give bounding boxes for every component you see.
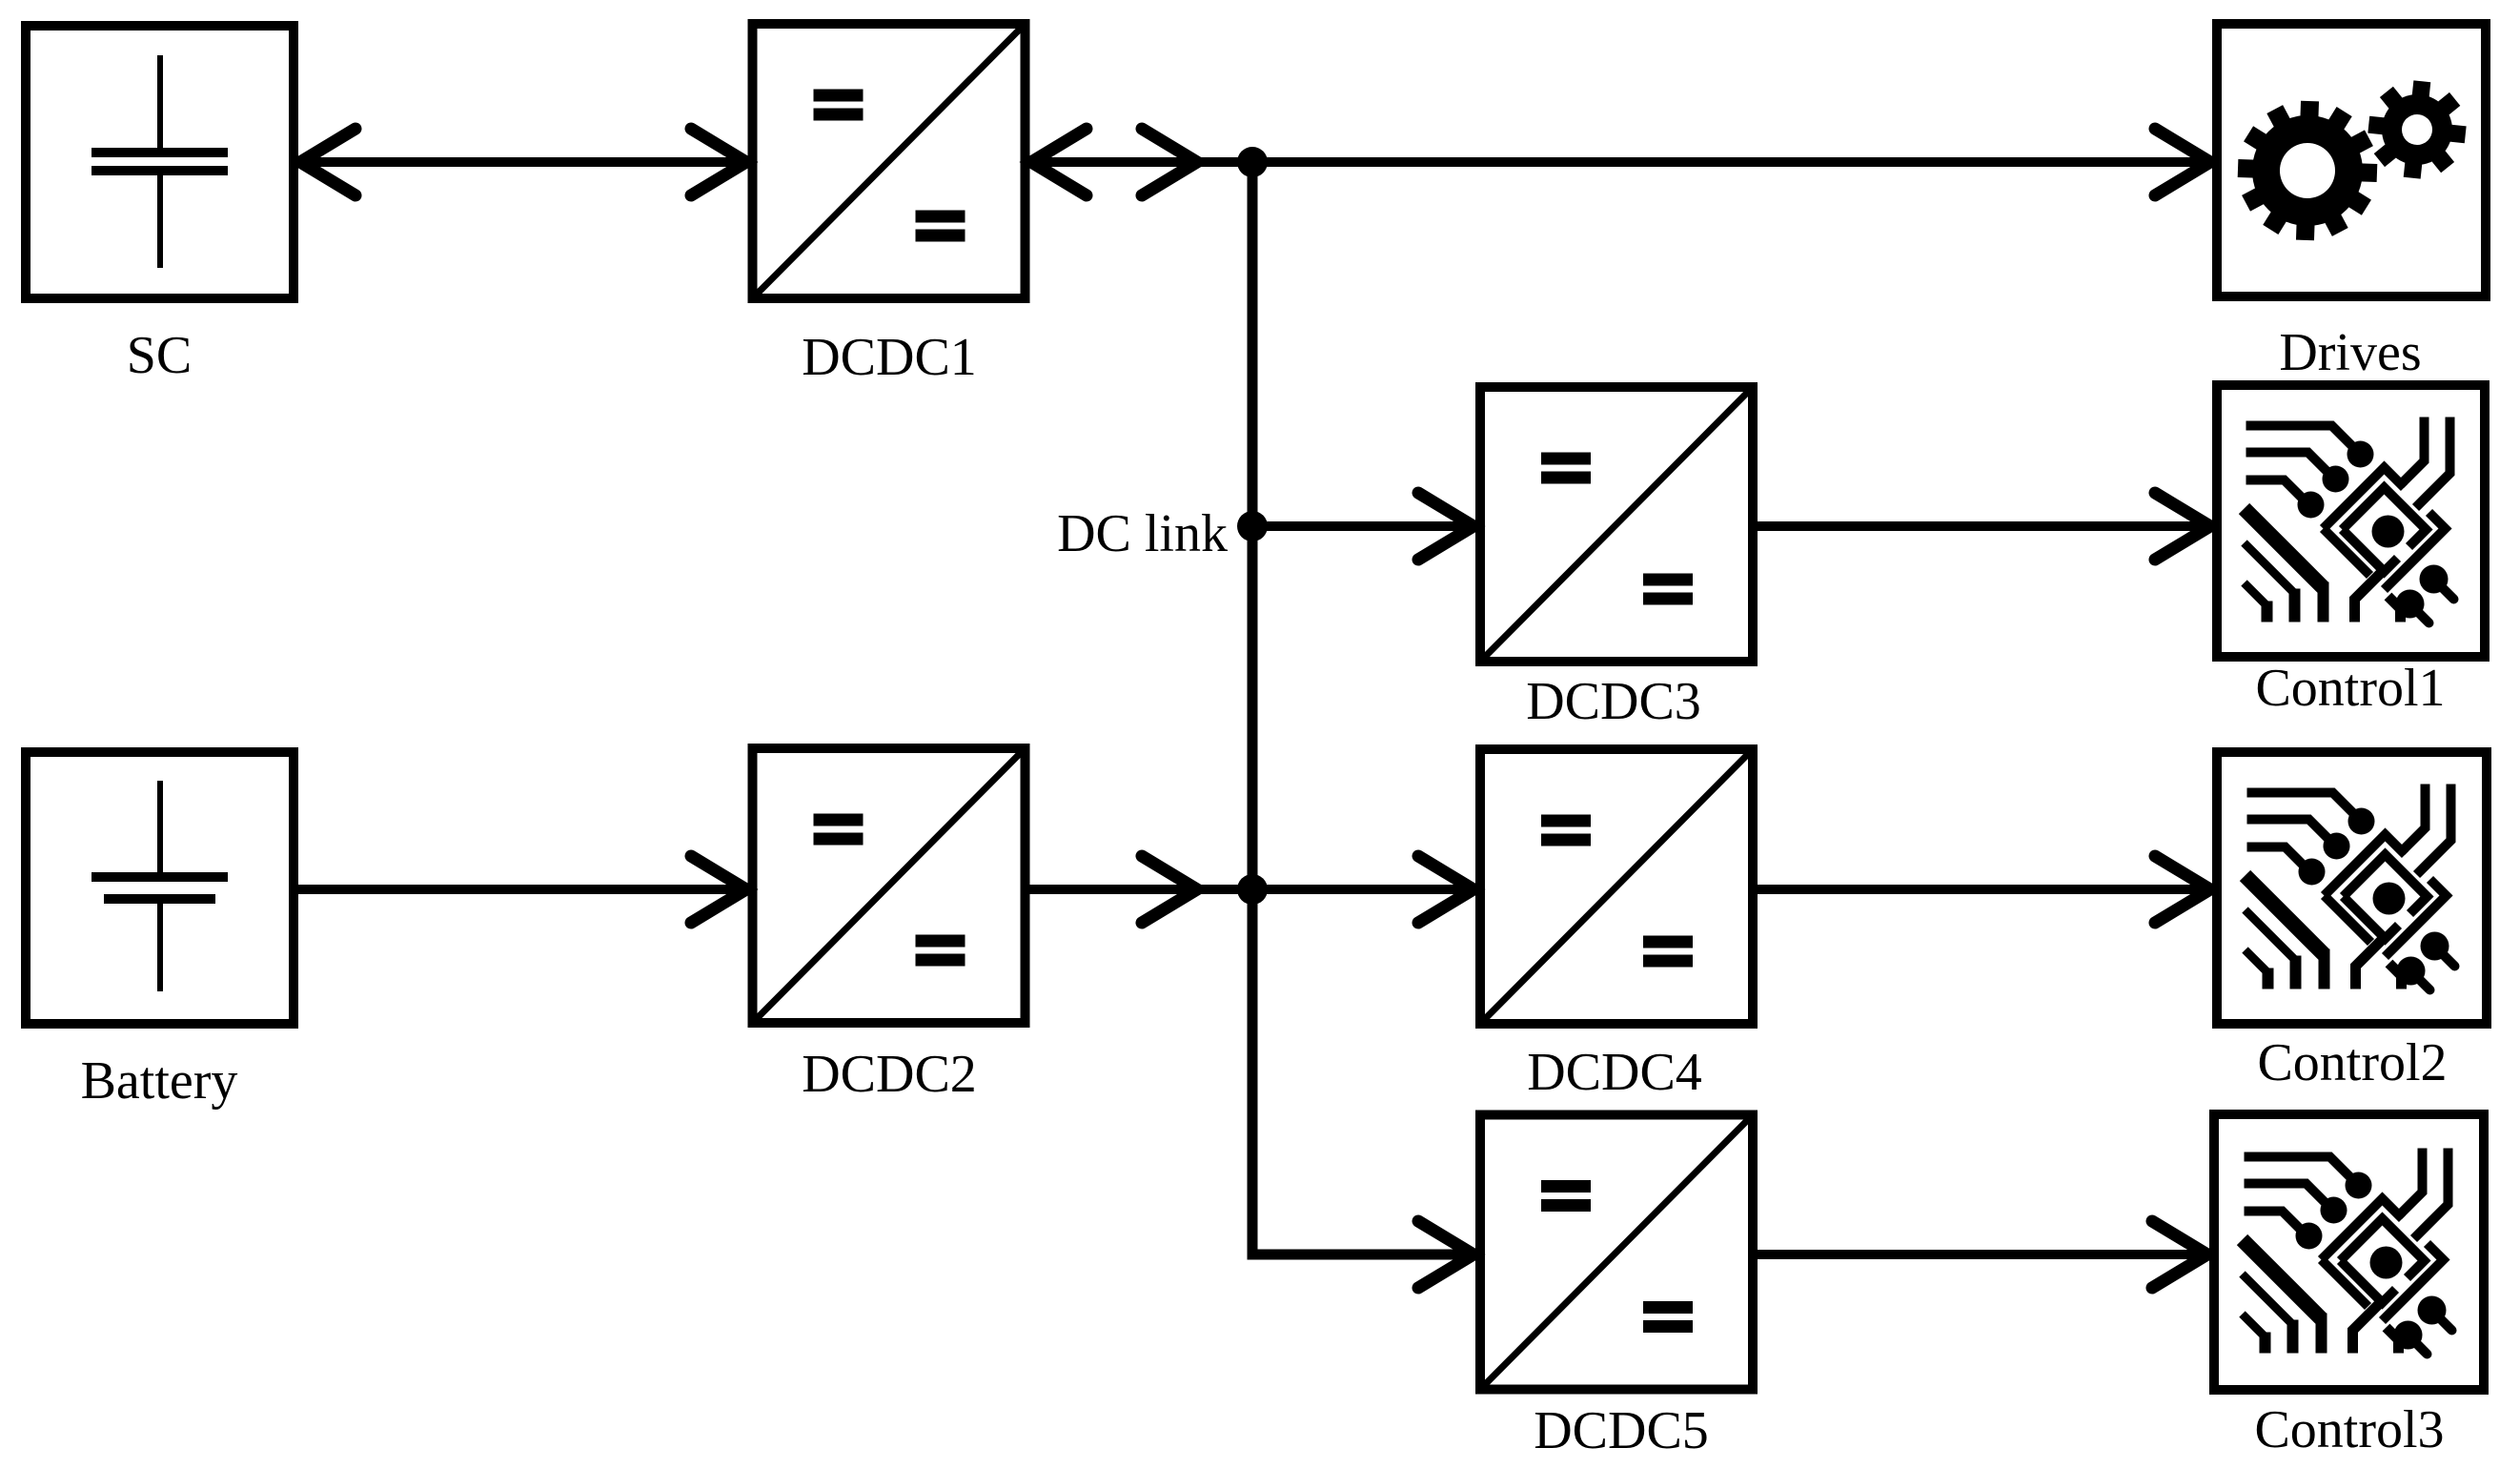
svg-text:DCDC1: DCDC1	[802, 328, 977, 387]
wire Battery-DCDC2	[298, 885, 748, 894]
converter DCDC2	[753, 748, 1026, 1023]
svg-text:Control1: Control1	[2255, 659, 2445, 718]
node junction node1	[1237, 147, 1268, 177]
capacitor symbol in SC	[91, 55, 228, 268]
arrowhead toward node1 (right)	[1142, 129, 1197, 195]
wire node1-Drives	[1252, 157, 2212, 167]
svg-text:DCDC5: DCDC5	[1534, 1401, 1709, 1460]
wire node2-DCDC3	[1252, 521, 1475, 531]
wire DC-link bus	[1252, 158, 1475, 1254]
battery box	[26, 752, 294, 1024]
arrowhead into DCDC3	[1418, 493, 1473, 560]
arrowhead toward node3 (right)	[1142, 856, 1197, 923]
converter DCDC4	[1480, 749, 1753, 1024]
node junction node3	[1237, 874, 1268, 905]
wire DCDC4-Control2	[1758, 885, 2212, 894]
arrowhead into Control2	[2155, 856, 2210, 923]
control2 box	[2217, 752, 2487, 1024]
arrowhead into Control1	[2155, 493, 2210, 560]
control1 box	[2217, 385, 2485, 657]
arrowhead into DCDC1 right side (left)	[1031, 129, 1087, 195]
arrowhead into SC (left)	[300, 129, 356, 195]
wire SC-DCDC1	[298, 157, 748, 167]
converter DCDC5	[1480, 1115, 1753, 1390]
circuit icon in Control1	[2245, 418, 2454, 623]
drives box	[2217, 24, 2486, 296]
svg-text:DCDC2: DCDC2	[802, 1045, 977, 1104]
wire node3-DCDC4	[1252, 885, 1475, 894]
converter DCDC3	[1480, 387, 1753, 662]
control3 box	[2214, 1114, 2484, 1390]
arrowhead into DCDC5	[1418, 1221, 1473, 1288]
arrowhead into Control3	[2152, 1221, 2207, 1288]
svg-text:DCDC3: DCDC3	[1526, 672, 1701, 731]
wire DCDC2-node3	[1029, 885, 1252, 894]
wire DCDC1-node1	[1029, 157, 1252, 167]
arrowhead into DCDC4	[1418, 856, 1473, 923]
svg-text:DC link: DC link	[1057, 504, 1228, 563]
battery symbol	[91, 781, 228, 991]
svg-text:DCDC4: DCDC4	[1527, 1043, 1702, 1102]
wire DCDC3-Control1	[1758, 521, 2212, 531]
arrowhead into DCDC2	[691, 856, 746, 923]
svg-text:SC: SC	[127, 326, 193, 385]
converter DCDC1	[753, 24, 1026, 298]
gears icon in Drives	[2238, 80, 2467, 240]
svg-text:Control2: Control2	[2257, 1033, 2447, 1092]
svg-text:Drives: Drives	[2279, 323, 2421, 382]
arrowhead into DCDC1 (right)	[691, 129, 746, 195]
node junction DC link	[1237, 511, 1268, 541]
circuit icon in Control2	[2246, 785, 2455, 990]
circuit icon in Control3	[2243, 1149, 2452, 1355]
supercapacitor SC box	[26, 26, 294, 298]
wire DCDC5-Control3	[1758, 1250, 2209, 1259]
arrowhead into Drives	[2155, 129, 2210, 195]
svg-text:Battery: Battery	[81, 1051, 238, 1111]
svg-text:Control3: Control3	[2254, 1400, 2444, 1459]
